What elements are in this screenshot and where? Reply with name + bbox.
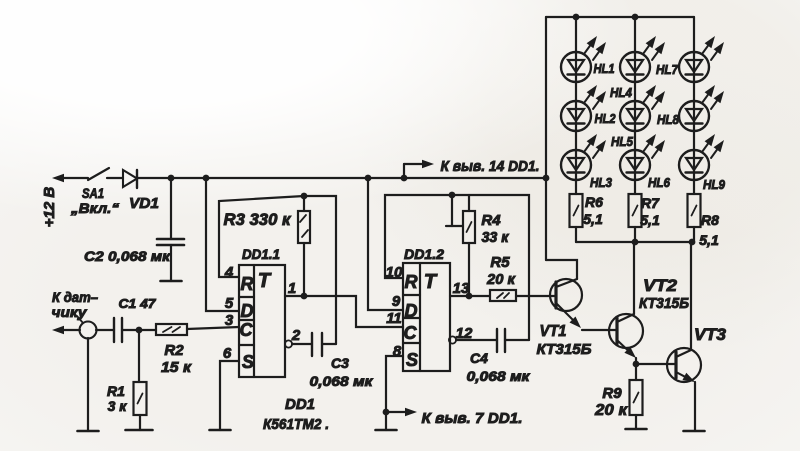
- node R4 bottom: [466, 293, 473, 300]
- wire stub: [446, 195, 462, 226]
- wire C1 to node: [122, 329, 156, 331]
- label C DD1.1: [240, 320, 254, 340]
- ground C2: [161, 280, 182, 283]
- label VT1: [537, 323, 592, 358]
- svg-text:чику: чику: [52, 304, 88, 320]
- svg-text:C: C: [240, 320, 254, 340]
- inversion circle pin12: [449, 336, 456, 343]
- wire col2 seg3: [634, 131, 636, 150]
- svg-text:R2: R2: [164, 342, 184, 359]
- label D DD1.2: [405, 301, 418, 321]
- svg-text:VT3: VT3: [694, 325, 727, 344]
- svg-text:33 к: 33 к: [482, 229, 510, 246]
- resistor R3: [298, 196, 310, 296]
- svg-text:R5: R5: [490, 254, 510, 271]
- label HL8: [657, 112, 680, 127]
- svg-text:9: 9: [392, 293, 401, 310]
- label R1: [107, 383, 127, 414]
- capacitor C4: [497, 329, 505, 352]
- VT3 emitter: [676, 372, 695, 431]
- capacitor C3: [312, 333, 322, 356]
- label HL7: [656, 62, 679, 77]
- resistor R7: [629, 194, 642, 227]
- wire connector to C1: [96, 329, 114, 331]
- svg-text:R: R: [405, 272, 418, 292]
- label R DD1.2: [405, 272, 418, 292]
- node C2-rail: [168, 175, 175, 182]
- label HL4: [610, 85, 633, 100]
- svg-text:DD1.2: DD1.2: [404, 246, 444, 262]
- input arrow К датчику: [52, 326, 80, 334]
- svg-text:К дат–: К дат–: [52, 289, 98, 305]
- svg-text:R: R: [241, 274, 254, 294]
- label R4 33к: [481, 212, 509, 246]
- label HL1: [594, 61, 615, 76]
- wire col1 seg1: [575, 17, 577, 52]
- LED HL5: [620, 85, 665, 132]
- svg-text:HL4: HL4: [610, 85, 633, 100]
- svg-text:4: 4: [224, 264, 234, 281]
- ground DD1.1 S: [210, 429, 231, 432]
- node arrow14: [401, 175, 408, 182]
- wire VT1 emitter to VT2 base: [582, 329, 617, 331]
- resistor R6: [570, 194, 583, 227]
- node loop stub: [449, 192, 456, 199]
- svg-text:S: S: [406, 350, 418, 370]
- wire col2 seg1: [634, 17, 636, 52]
- wire emitter node to VT3 base: [636, 363, 676, 365]
- LED HL6: [620, 134, 665, 181]
- label C3: [310, 355, 374, 389]
- label D DD1.1: [241, 301, 254, 321]
- svg-text:5,1: 5,1: [699, 232, 719, 248]
- node R3 bottom: [301, 293, 308, 300]
- label T DD1.2: [424, 271, 438, 293]
- svg-text:6: 6: [223, 345, 232, 362]
- LED HL4: [620, 36, 665, 83]
- ground DD1.2 S: [376, 429, 397, 432]
- label DD1 К561ТМ2: [263, 396, 329, 433]
- wire pin1 to DD1.2 C: [285, 296, 403, 327]
- label +12 В: [41, 187, 58, 228]
- VT1 collector: [546, 260, 577, 287]
- wire R1 to ground: [139, 415, 141, 430]
- wire pin13 to R5: [450, 295, 490, 297]
- svg-text:R7: R7: [641, 195, 660, 211]
- resistor R1: [134, 382, 147, 415]
- svg-text:5: 5: [225, 295, 234, 312]
- svg-text:10: 10: [386, 264, 403, 281]
- svg-text:3 к: 3 к: [108, 398, 128, 414]
- svg-text:11: 11: [386, 310, 402, 327]
- +12V input arrow: [52, 174, 88, 182]
- wire LED box left: [545, 17, 547, 260]
- svg-text:VT1: VT1: [540, 323, 567, 340]
- svg-text:0,068 мк: 0,068 мк: [310, 373, 374, 389]
- pin 8: [393, 343, 402, 360]
- svg-text:T: T: [424, 271, 438, 293]
- wire R7 bottom: [634, 227, 636, 242]
- resistor R2: [156, 324, 187, 335]
- label SA1: [82, 185, 104, 201]
- svg-text:C1 47: C1 47: [119, 296, 157, 311]
- wire R8 bottom: [693, 227, 695, 242]
- arrow К выв 14: [404, 160, 434, 178]
- label HL9: [703, 177, 726, 192]
- wire C4 to loop: [505, 339, 529, 341]
- wire connector to ground: [87, 338, 89, 431]
- label R3 330к: [224, 210, 292, 229]
- label C DD1.2: [404, 323, 418, 343]
- pin 13: [453, 280, 470, 297]
- pin 11: [386, 310, 402, 327]
- LED HL9: [679, 134, 724, 181]
- svg-text:0,068 мк: 0,068 мк: [467, 368, 531, 384]
- node D-drop rail: [203, 175, 210, 182]
- label DD1.1: [242, 246, 280, 262]
- label R6: [583, 194, 603, 227]
- capacitor C1: [114, 318, 122, 342]
- svg-text:„Вкл.“: „Вкл.“: [70, 200, 119, 216]
- resistor R9: [630, 364, 643, 429]
- svg-text:SA1: SA1: [82, 185, 104, 201]
- label HL5: [611, 134, 634, 149]
- node col3 bottom: [689, 239, 696, 246]
- svg-text:К выв. 7 DD1.: К выв. 7 DD1.: [422, 410, 523, 427]
- VT3 collector: [676, 242, 691, 357]
- wire node to R1: [138, 330, 140, 382]
- label Вкл: [70, 200, 119, 216]
- VT2 collector: [617, 242, 634, 322]
- svg-text:К561ТМ2 .: К561ТМ2 .: [263, 416, 329, 433]
- wire pin6 S to ground: [220, 361, 239, 430]
- svg-text:5,1: 5,1: [640, 212, 660, 228]
- LED HL2: [561, 85, 606, 132]
- wire LED bottoms: [576, 241, 694, 243]
- label VT3: [694, 325, 727, 344]
- label VD1: [129, 195, 159, 212]
- svg-text:HL6: HL6: [648, 175, 671, 190]
- connector XS1: [77, 316, 97, 339]
- ground connector: [78, 430, 99, 433]
- wire C3 to loop: [322, 343, 336, 345]
- svg-text:R4: R4: [481, 212, 501, 229]
- svg-text:R9: R9: [602, 385, 622, 402]
- ground R1: [126, 429, 153, 432]
- LED HL7: [679, 36, 724, 83]
- svg-text:R6: R6: [585, 194, 603, 210]
- label HL2: [595, 111, 617, 126]
- node A: [136, 327, 143, 334]
- wire pin12 to C4: [456, 339, 497, 341]
- inversion circle pin2: [285, 340, 292, 347]
- pin 5: [225, 295, 234, 312]
- wire col2 to R7: [634, 180, 636, 194]
- wire rail to pin5 D: [206, 178, 239, 311]
- pin 4: [224, 264, 234, 281]
- node rail-LED box: [543, 175, 550, 182]
- pin 12: [456, 325, 473, 342]
- svg-text:3: 3: [225, 312, 234, 329]
- label R7: [640, 195, 660, 228]
- node arrow7: [383, 409, 390, 416]
- svg-text:HL2: HL2: [595, 111, 617, 126]
- pin 10: [386, 264, 403, 281]
- svg-text:VT2: VT2: [643, 276, 678, 295]
- pin 9: [392, 293, 401, 310]
- pin 2: [291, 327, 301, 344]
- svg-text:T: T: [258, 270, 272, 292]
- svg-text:2: 2: [291, 327, 301, 344]
- diode VD1: [123, 170, 137, 188]
- label HL3: [590, 175, 613, 190]
- label R5 20к: [486, 254, 516, 288]
- pin 3: [225, 312, 234, 329]
- wire rail to pin9 D: [368, 178, 403, 310]
- svg-text:5,1: 5,1: [583, 211, 603, 227]
- pin 1: [288, 280, 296, 297]
- label VT2: [639, 276, 689, 312]
- svg-text:C3: C3: [331, 355, 349, 371]
- wire +12V rail: [137, 177, 546, 179]
- svg-text:C4: C4: [470, 350, 488, 366]
- label C4: [467, 350, 531, 384]
- node LED col2 top: [632, 14, 639, 21]
- svg-text:DD1.1: DD1.1: [242, 246, 280, 262]
- label C1 47: [119, 296, 157, 311]
- label R DD1.1: [241, 274, 254, 294]
- svg-text:D: D: [241, 301, 254, 321]
- label К выв 14 DD1: [441, 158, 540, 175]
- transistor VT3: [667, 348, 701, 382]
- label S DD1.2: [406, 350, 418, 370]
- label R9 20к: [594, 385, 628, 419]
- label HL6: [648, 175, 671, 190]
- svg-text:8: 8: [393, 343, 402, 360]
- wire col1 to R6: [575, 180, 577, 194]
- svg-text:20 к: 20 к: [486, 271, 516, 288]
- wire col3 seg1: [693, 17, 695, 52]
- op-amp DD1.1 box: [239, 265, 285, 377]
- label R8: [699, 212, 719, 248]
- node col2 bottom: [632, 239, 639, 246]
- wire R2 to pin3: [187, 327, 239, 329]
- LED HL3: [561, 134, 606, 181]
- resistor R4: [463, 195, 475, 296]
- svg-text:13: 13: [453, 280, 470, 297]
- svg-text:К выв. 14 DD1.: К выв. 14 DD1.: [441, 158, 540, 175]
- wire R6 bottom: [575, 227, 577, 242]
- op-amp DD1.2 box: [403, 263, 450, 371]
- svg-text:R3 330 к: R3 330 к: [224, 210, 292, 229]
- svg-text:HL7: HL7: [656, 62, 679, 77]
- transistor VT1: [550, 279, 582, 311]
- svg-text:DD1: DD1: [285, 396, 315, 413]
- svg-text:КТ315Б: КТ315Б: [639, 295, 689, 312]
- wire col1 seg2: [575, 82, 577, 101]
- ground VT3: [684, 430, 705, 433]
- wire col3 seg3: [693, 131, 695, 150]
- resistor R5: [490, 290, 516, 301]
- wire col1 seg3: [575, 131, 577, 150]
- svg-text:15 к: 15 к: [161, 359, 192, 376]
- svg-text:HL5: HL5: [611, 134, 634, 149]
- svg-text:HL9: HL9: [703, 177, 726, 192]
- transistor VT2: [609, 314, 643, 348]
- wire col2 seg2: [634, 82, 636, 101]
- label К выв 7 DD1: [422, 410, 523, 427]
- node D-drop rail 2: [365, 175, 372, 182]
- svg-text:HL8: HL8: [657, 112, 680, 127]
- wire col3 seg2: [693, 82, 695, 101]
- wire LED box top: [546, 16, 694, 18]
- wire col3 to R8: [693, 180, 695, 194]
- svg-text:HL3: HL3: [590, 175, 613, 190]
- wire pin2 to C3: [292, 343, 312, 345]
- label C2: [84, 248, 171, 264]
- wire R-loop DD1.2: [385, 195, 529, 340]
- svg-text:D: D: [405, 301, 418, 321]
- label S DD1.1: [242, 352, 254, 372]
- svg-text:VD1: VD1: [129, 195, 159, 212]
- resistor R8: [688, 194, 701, 227]
- svg-text:+12 В: +12 В: [41, 187, 58, 228]
- label T DD1.1: [258, 270, 272, 292]
- wire R-loop DD1.1: [219, 196, 336, 344]
- LED HL8: [679, 85, 724, 132]
- VT2 emitter: [617, 340, 636, 364]
- svg-text:S: S: [242, 352, 254, 372]
- node R3 top: [301, 193, 308, 200]
- arrow К выв 7: [386, 408, 417, 416]
- ground R9: [626, 428, 647, 431]
- svg-text:КТ315Б: КТ315Б: [537, 341, 592, 358]
- VT1 emitter: [556, 303, 581, 328]
- svg-text:C: C: [404, 323, 418, 343]
- svg-text:1: 1: [288, 280, 296, 297]
- svg-text:R8: R8: [701, 212, 719, 228]
- node VT2 emitter: [633, 361, 640, 368]
- svg-text:C2 0,068 мк: C2 0,068 мк: [84, 248, 171, 264]
- wire pin8 S to ground: [386, 356, 403, 430]
- label R2: [161, 342, 192, 376]
- switch SA1: [88, 168, 123, 180]
- node LED col1 top: [573, 14, 580, 21]
- capacitor C2: [157, 178, 184, 281]
- pin 6: [223, 345, 232, 362]
- svg-text:20 к: 20 к: [594, 402, 628, 419]
- wire R5 to VT1 base: [516, 295, 556, 297]
- label DD1.2: [404, 246, 444, 262]
- svg-text:HL1: HL1: [594, 61, 615, 76]
- svg-text:R1: R1: [107, 383, 125, 399]
- label К датчику: [52, 289, 99, 320]
- LED HL1: [561, 36, 606, 83]
